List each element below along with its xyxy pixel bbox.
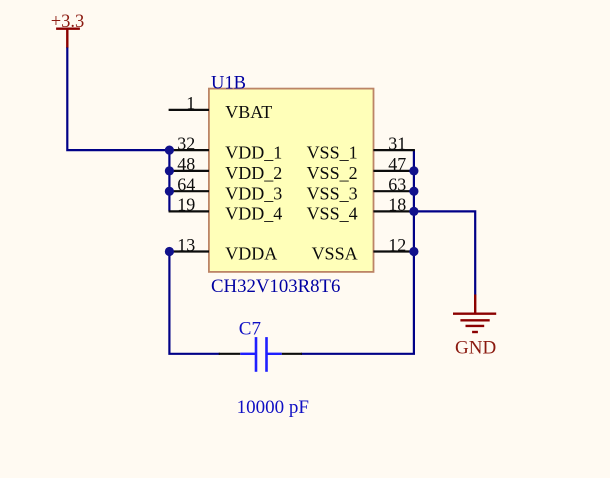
svg-text:10000 pF: 10000 pF xyxy=(237,397,309,418)
junction VDDA xyxy=(165,247,174,256)
svg-text:47: 47 xyxy=(388,154,406,174)
ground GND xyxy=(453,295,496,359)
junction VSS_2 xyxy=(409,166,418,175)
pin 12 VSSA xyxy=(312,235,415,264)
svg-text:12: 12 xyxy=(388,235,406,255)
pin 31 VSS_1 xyxy=(307,133,415,162)
pin 18 VSS_4 xyxy=(307,195,415,224)
svg-text:18: 18 xyxy=(388,195,406,215)
svg-text:48: 48 xyxy=(177,154,195,174)
junction VDD_2 xyxy=(165,166,174,175)
svg-text:VBAT: VBAT xyxy=(225,102,272,122)
svg-text:VSS_4: VSS_4 xyxy=(307,204,358,224)
IC U1B body xyxy=(209,89,374,272)
svg-text:VDD_4: VDD_4 xyxy=(225,204,282,224)
junction VSSA xyxy=(409,247,418,256)
svg-text:GND: GND xyxy=(455,337,496,358)
wire left VDD bus xyxy=(168,150,170,211)
svg-text:VSS_3: VSS_3 xyxy=(307,183,358,203)
svg-text:19: 19 xyxy=(177,195,195,215)
pin 63 VSS_3 xyxy=(307,175,415,204)
junction VDD_3 xyxy=(165,187,174,196)
svg-text:63: 63 xyxy=(388,175,406,195)
pin 48 VDD_2 xyxy=(169,154,283,183)
svg-text:64: 64 xyxy=(177,175,195,195)
wire VSS_4 to GND xyxy=(414,211,475,295)
svg-text:C7: C7 xyxy=(239,319,261,340)
wire capacitor C7 to VSS bus xyxy=(301,150,414,354)
svg-text:1: 1 xyxy=(186,93,195,113)
pin 13 VDDA xyxy=(169,235,278,264)
svg-text:CH32V103R8T6: CH32V103R8T6 xyxy=(211,276,340,297)
svg-text:31: 31 xyxy=(388,133,406,153)
capacitor C7 xyxy=(219,337,302,372)
wire VDDA to capacitor C7 xyxy=(169,252,220,354)
junction VSS_4 xyxy=(409,207,418,216)
svg-text:VDD_2: VDD_2 xyxy=(225,163,282,183)
svg-text:13: 13 xyxy=(177,235,195,255)
pin 1 VBAT xyxy=(169,93,273,122)
svg-text:VDD_3: VDD_3 xyxy=(225,183,282,203)
wire +3.3 to VDD_1 xyxy=(67,48,169,151)
pin 47 VSS_2 xyxy=(307,154,415,183)
pin 19 VDD_4 xyxy=(169,195,283,224)
svg-text:VSS_2: VSS_2 xyxy=(307,163,358,183)
svg-text:U1B: U1B xyxy=(211,74,246,94)
svg-text:32: 32 xyxy=(177,133,195,153)
junction VSS_3 xyxy=(409,187,418,196)
svg-text:VDDA: VDDA xyxy=(225,244,277,264)
svg-text:VSS_1: VSS_1 xyxy=(307,142,358,162)
svg-text:VDD_1: VDD_1 xyxy=(225,142,282,162)
pin 32 VDD_1 xyxy=(169,133,283,162)
pin 64 VDD_3 xyxy=(169,175,283,204)
power port +3.3 xyxy=(51,12,85,48)
svg-text:VSSA: VSSA xyxy=(312,244,358,264)
junction VDD_1 xyxy=(165,146,174,155)
